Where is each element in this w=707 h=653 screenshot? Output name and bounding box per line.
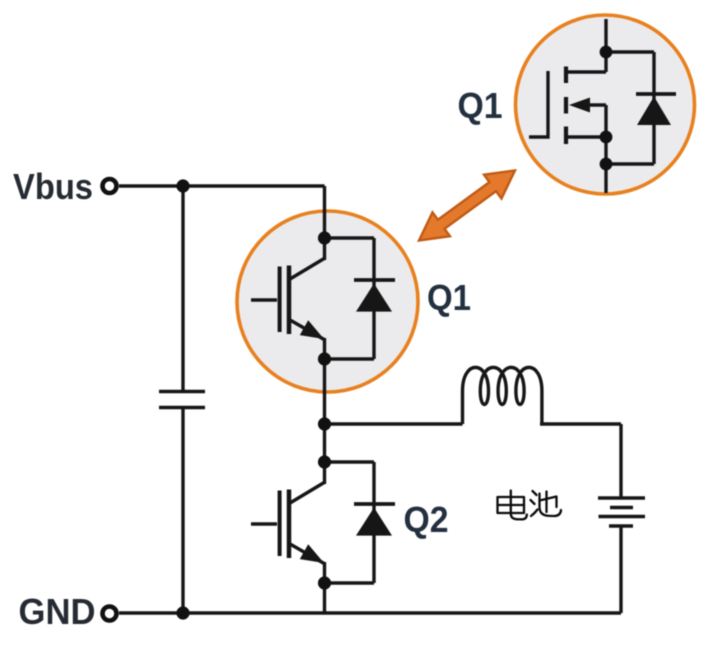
svg-text:Vbus: Vbus — [13, 166, 93, 207]
svg-text:Q2: Q2 — [404, 499, 449, 540]
svg-text:GND: GND — [19, 591, 96, 632]
svg-text:Q1: Q1 — [427, 277, 471, 318]
svg-text:Q1: Q1 — [458, 85, 503, 126]
